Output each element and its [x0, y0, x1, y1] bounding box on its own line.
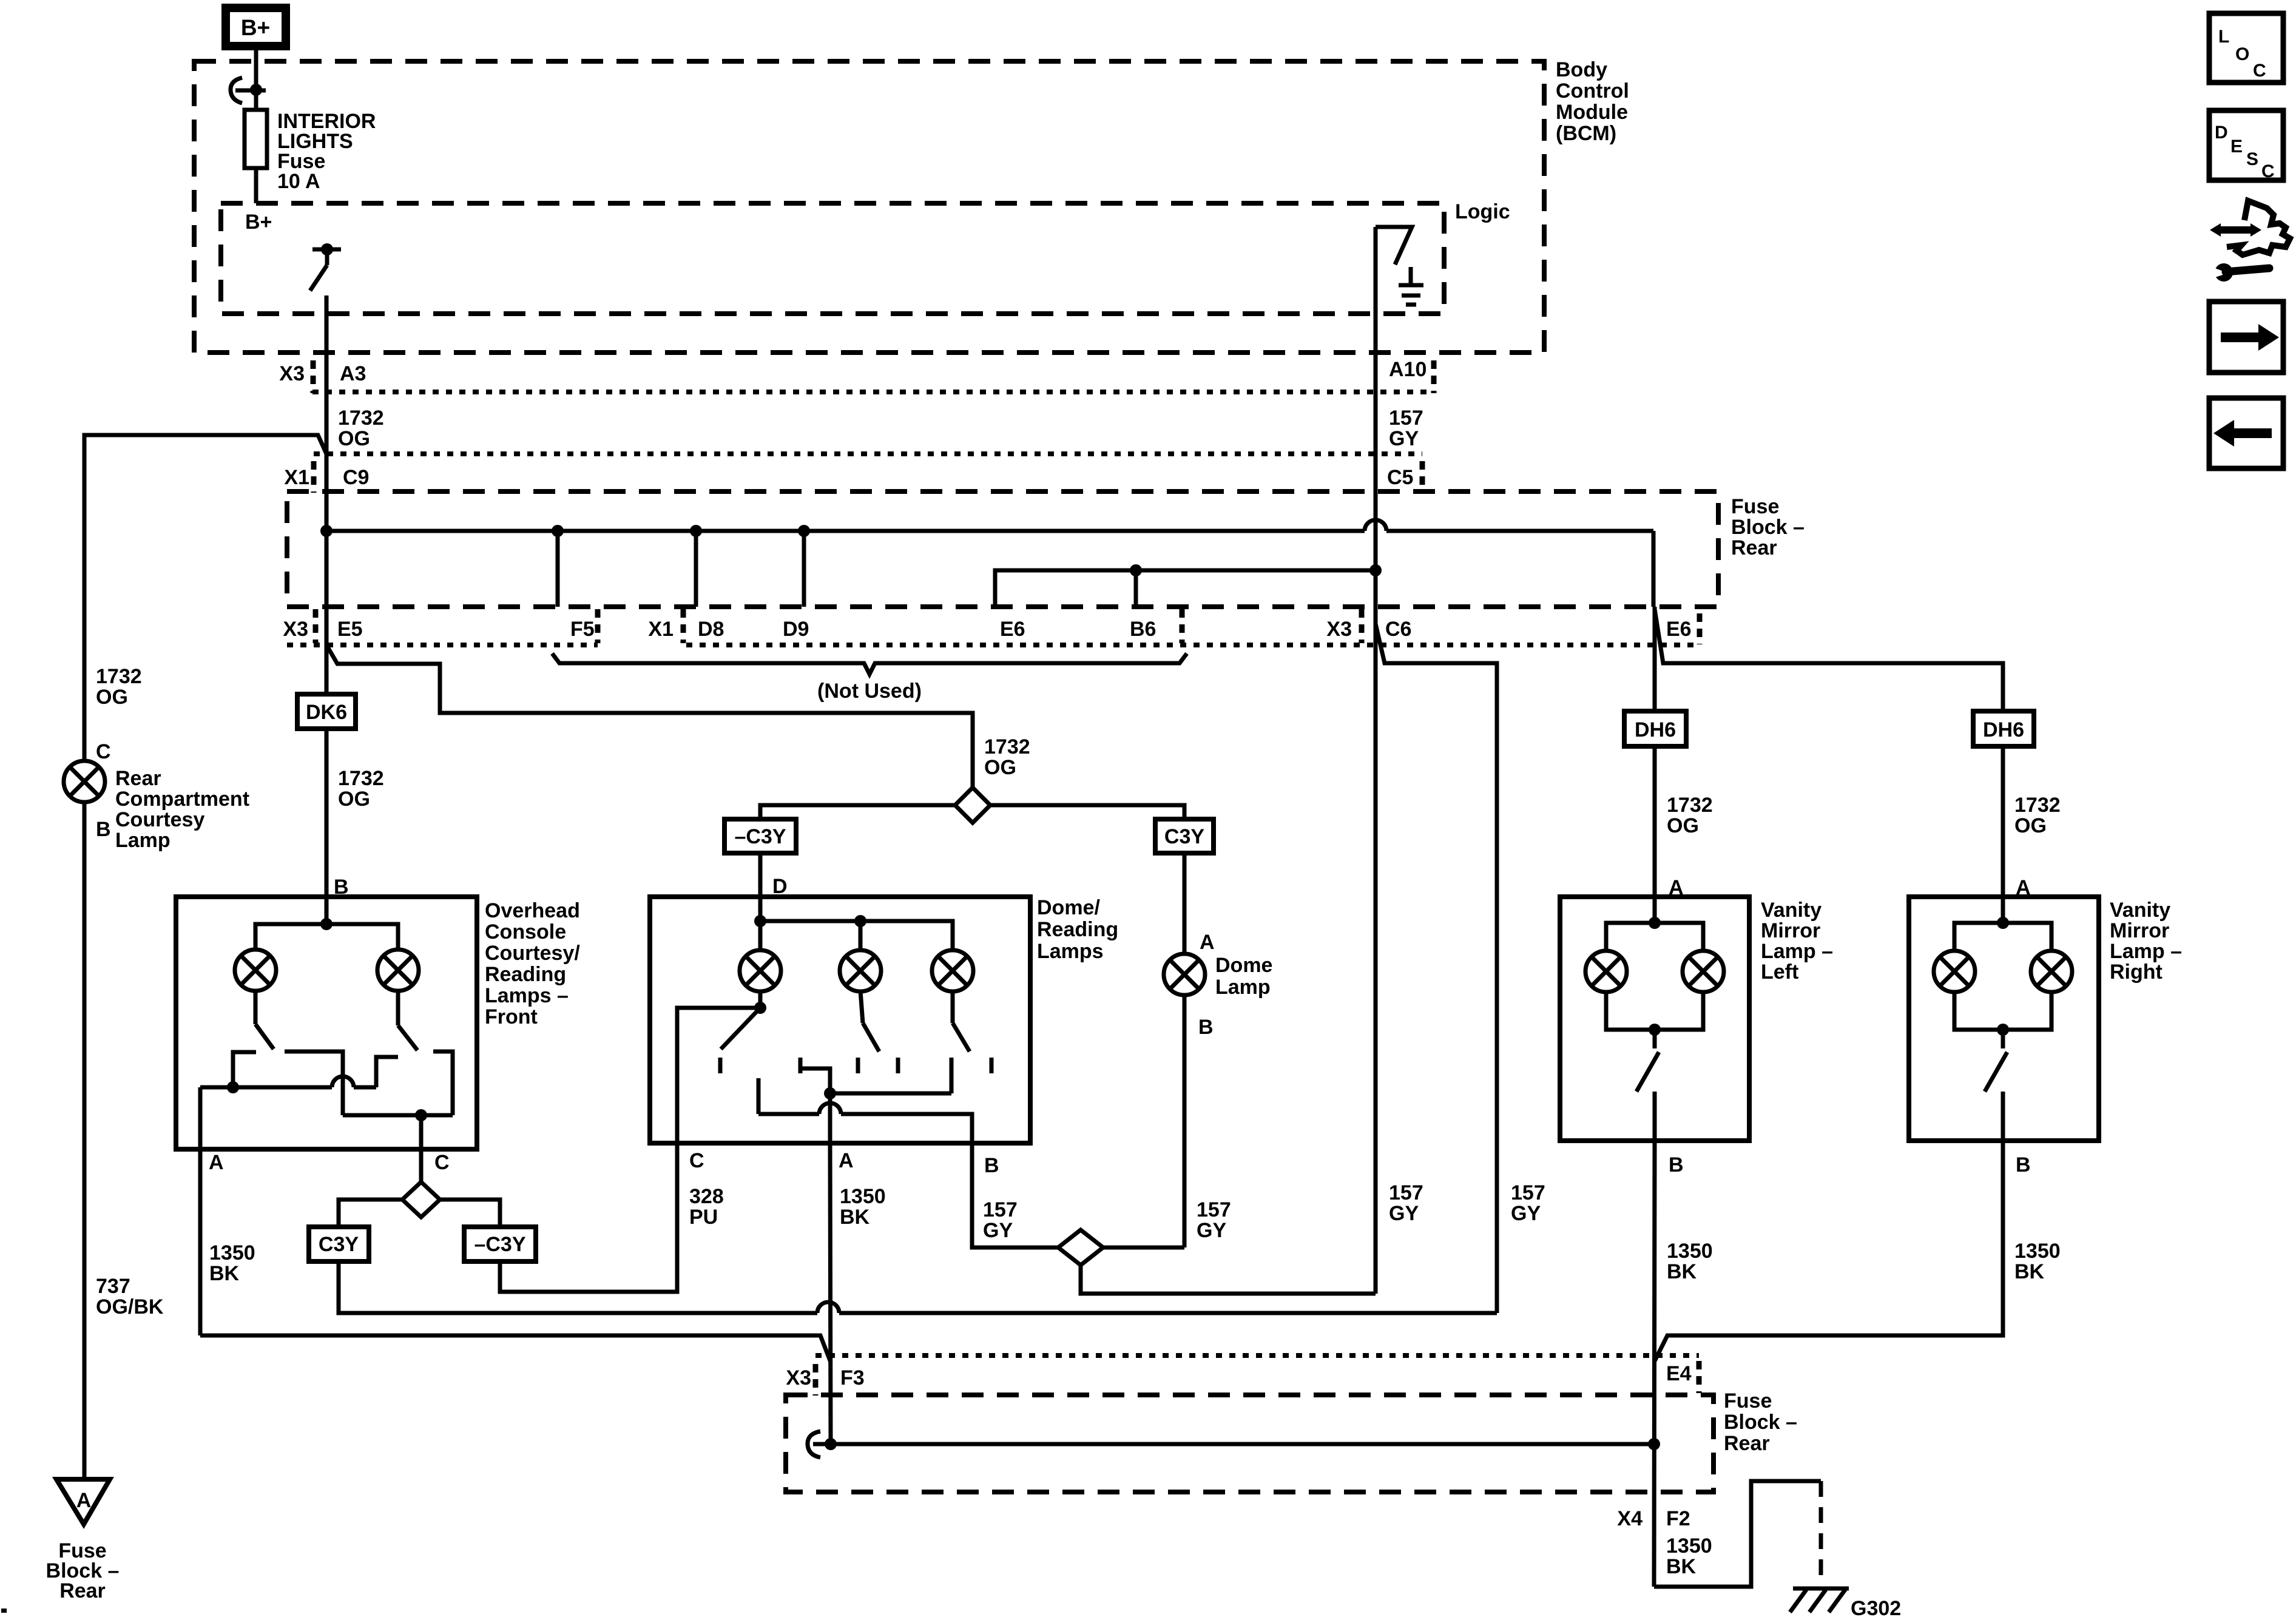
- svg-text:Overhead: Overhead: [485, 899, 580, 922]
- svg-text:C: C: [96, 740, 111, 763]
- svg-text:Courtesy/: Courtesy/: [485, 942, 580, 965]
- svg-text:A3: A3: [340, 362, 366, 385]
- svg-text:157: 157: [983, 1198, 1018, 1221]
- svg-text:D: D: [772, 875, 788, 898]
- svg-text:S: S: [2246, 149, 2258, 169]
- svg-text:Mirror: Mirror: [2110, 919, 2169, 942]
- svg-text:B: B: [96, 818, 111, 841]
- svg-text:C5: C5: [1387, 466, 1413, 489]
- svg-text:Module: Module: [1556, 101, 1628, 124]
- svg-text:GY: GY: [1389, 427, 1419, 450]
- svg-text:F5: F5: [570, 618, 595, 641]
- svg-text:Left: Left: [1761, 960, 1798, 984]
- svg-text:A: A: [839, 1149, 854, 1172]
- svg-text:BK: BK: [1667, 1260, 1697, 1283]
- svg-text:B: B: [1669, 1153, 1684, 1176]
- svg-text:Control: Control: [1556, 79, 1629, 103]
- svg-text:–C3Y: –C3Y: [474, 1233, 525, 1256]
- svg-text:Rear: Rear: [115, 767, 161, 790]
- svg-text:Dome/: Dome/: [1037, 896, 1100, 919]
- svg-text:A10: A10: [1389, 358, 1427, 381]
- svg-text:OG: OG: [338, 788, 370, 811]
- svg-text:1732: 1732: [96, 665, 142, 688]
- svg-text:C: C: [2253, 61, 2266, 81]
- svg-text:Courtesy: Courtesy: [115, 808, 204, 831]
- svg-text:1350: 1350: [1666, 1534, 1712, 1558]
- svg-text:Lamp: Lamp: [1215, 976, 1271, 999]
- svg-text:(Not Used): (Not Used): [817, 680, 922, 703]
- svg-text:A: A: [2016, 876, 2031, 899]
- svg-text:1350: 1350: [840, 1185, 886, 1208]
- svg-text:OG: OG: [338, 427, 370, 450]
- svg-text:GY: GY: [1511, 1202, 1541, 1225]
- svg-text:F2: F2: [1666, 1507, 1690, 1530]
- svg-text:C: C: [2261, 161, 2275, 181]
- svg-text:C9: C9: [343, 466, 369, 489]
- svg-text:Block –: Block –: [1724, 1411, 1797, 1434]
- svg-text:B: B: [334, 876, 349, 899]
- svg-text:A: A: [76, 1489, 92, 1512]
- svg-text:737: 737: [96, 1275, 130, 1298]
- svg-text:E5: E5: [337, 618, 363, 641]
- svg-text:D8: D8: [698, 618, 724, 641]
- svg-text:X3: X3: [1326, 618, 1352, 641]
- svg-text:PU: PU: [689, 1206, 718, 1229]
- svg-text:Vanity: Vanity: [1761, 899, 1822, 922]
- svg-text:–C3Y: –C3Y: [734, 825, 786, 848]
- svg-text:C: C: [689, 1149, 704, 1172]
- svg-text:Mirror: Mirror: [1761, 919, 1820, 942]
- svg-text:B: B: [984, 1154, 999, 1177]
- svg-text:A: A: [1200, 931, 1215, 954]
- svg-text:OG/BK: OG/BK: [96, 1295, 164, 1318]
- svg-text:X4: X4: [1617, 1507, 1643, 1530]
- svg-text:1732: 1732: [338, 407, 384, 430]
- svg-text:Fuse: Fuse: [1724, 1389, 1772, 1413]
- svg-text:1732: 1732: [1667, 794, 1713, 817]
- svg-text:Rear: Rear: [1731, 536, 1777, 559]
- svg-text:Lamps: Lamps: [1037, 940, 1104, 963]
- svg-text:C6: C6: [1385, 618, 1411, 641]
- svg-text:DH6: DH6: [1635, 718, 1676, 741]
- svg-text:Front: Front: [485, 1005, 538, 1028]
- svg-text:OG: OG: [2014, 814, 2047, 837]
- svg-text:157: 157: [1389, 407, 1423, 430]
- svg-text:OG: OG: [96, 686, 128, 709]
- svg-text:C: C: [434, 1151, 450, 1174]
- svg-text:E: E: [2230, 137, 2243, 157]
- svg-text:BK: BK: [840, 1206, 870, 1229]
- svg-text:OG: OG: [1667, 814, 1699, 837]
- svg-text:E6: E6: [1666, 618, 1692, 641]
- svg-text:X3: X3: [279, 362, 305, 385]
- svg-text:Rear: Rear: [1724, 1432, 1770, 1455]
- svg-text:Lamp –: Lamp –: [2110, 940, 2182, 963]
- svg-text:Dome: Dome: [1215, 954, 1272, 977]
- svg-text:GY: GY: [983, 1219, 1013, 1242]
- svg-text:B: B: [1198, 1016, 1214, 1039]
- svg-text:E6: E6: [1000, 618, 1025, 641]
- svg-text:(BCM): (BCM): [1556, 122, 1616, 145]
- svg-text:B+: B+: [241, 15, 270, 40]
- svg-text:L: L: [2218, 27, 2229, 47]
- svg-text:B: B: [2016, 1153, 2031, 1176]
- svg-text:GY: GY: [1197, 1219, 1226, 1242]
- svg-text:D9: D9: [783, 618, 809, 641]
- svg-text:X3: X3: [283, 618, 308, 641]
- svg-text:Logic: Logic: [1455, 200, 1510, 223]
- svg-text:Lamp: Lamp: [115, 829, 171, 852]
- svg-text:B+: B+: [245, 211, 272, 234]
- svg-text:C3Y: C3Y: [319, 1233, 359, 1256]
- svg-text:X1: X1: [648, 618, 674, 641]
- svg-text:1350: 1350: [209, 1241, 255, 1264]
- svg-text:B6: B6: [1130, 618, 1156, 641]
- svg-text:1732: 1732: [338, 767, 384, 790]
- svg-text:Fuse: Fuse: [1731, 495, 1779, 518]
- svg-text:Right: Right: [2110, 960, 2163, 984]
- svg-text:1350: 1350: [1667, 1240, 1713, 1263]
- svg-text:Vanity: Vanity: [2110, 899, 2170, 922]
- svg-text:C3Y: C3Y: [1164, 825, 1204, 848]
- svg-text:GY: GY: [1389, 1202, 1419, 1225]
- svg-text:A: A: [209, 1151, 224, 1174]
- svg-text:G302: G302: [1851, 1597, 1901, 1617]
- svg-text:Lamps –: Lamps –: [485, 984, 569, 1007]
- svg-text:Block –: Block –: [1731, 516, 1805, 539]
- svg-text:O: O: [2235, 44, 2249, 64]
- svg-text:157: 157: [1197, 1198, 1231, 1221]
- svg-text:10 A: 10 A: [277, 170, 320, 193]
- svg-text:BK: BK: [2014, 1260, 2045, 1283]
- svg-text:1350: 1350: [2014, 1240, 2061, 1263]
- svg-text:BK: BK: [1666, 1555, 1697, 1578]
- svg-text:X3: X3: [786, 1366, 811, 1389]
- svg-text:F3: F3: [840, 1366, 865, 1389]
- svg-text:157: 157: [1389, 1181, 1423, 1204]
- svg-text:Compartment: Compartment: [115, 788, 249, 811]
- svg-text:DH6: DH6: [1983, 718, 2024, 741]
- svg-text:E4: E4: [1666, 1362, 1692, 1385]
- svg-text:A: A: [1669, 876, 1684, 899]
- svg-text:Rear: Rear: [59, 1579, 106, 1602]
- svg-text:1732: 1732: [2014, 794, 2061, 817]
- svg-text:OG: OG: [984, 756, 1016, 779]
- svg-text:BK: BK: [209, 1262, 240, 1285]
- svg-text:Lamp –: Lamp –: [1761, 940, 1833, 963]
- svg-text:X1: X1: [284, 466, 309, 489]
- svg-text:Body: Body: [1556, 58, 1607, 81]
- svg-text:157: 157: [1511, 1181, 1545, 1204]
- svg-text:Reading: Reading: [485, 963, 566, 986]
- svg-text:DK6: DK6: [306, 701, 347, 724]
- svg-text:D: D: [2215, 123, 2228, 143]
- svg-text:Console: Console: [485, 920, 566, 944]
- svg-text:1732: 1732: [984, 735, 1030, 758]
- svg-text:Reading: Reading: [1037, 918, 1118, 941]
- svg-text:328: 328: [689, 1185, 724, 1208]
